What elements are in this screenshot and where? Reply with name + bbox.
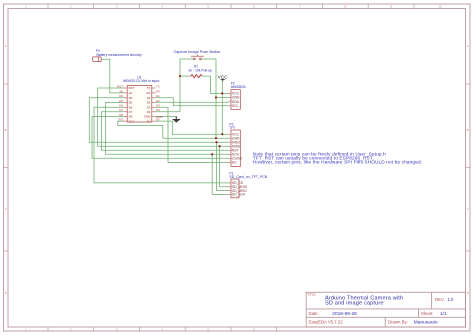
wire MOSI branch to SD_MOSI [220,146,229,187]
U1 outside net labels right [156,84,162,121]
junction GND column / P2.GND row [215,96,217,98]
svg-text:4: 4 [162,5,164,9]
connector P1 SD card [231,179,239,198]
svg-text:D: D [5,291,7,295]
wire D8 net to P3.CS/SS [92,117,229,159]
U1 right pins [152,88,156,121]
svg-text:SD_Card_on_TFT_PCB: SD_Card_on_TFT_PCB [229,175,267,179]
junction VCC vertical / P3.VCC row [221,133,223,135]
svg-text:C: C [5,207,7,211]
svg-text:1: 1 [25,5,27,9]
svg-text:GND: GND [144,115,150,119]
svg-text:D7: D7 [119,108,123,112]
push button SW [191,55,204,60]
resistor R1 [191,75,202,78]
svg-text:SD and image capture: SD and image capture [325,300,384,306]
svg-text:D8: D8 [129,115,133,119]
svg-text:3V3: 3V3 [118,118,124,122]
svg-text:2018-08-28: 2018-08-28 [332,311,357,317]
wire R1 left lead [180,75,191,77]
junction MOSI branch [219,145,221,147]
U1 pin names inside [129,86,135,123]
IC U1 WEMOS D1 Mini [127,86,152,123]
wire P2.GND row [216,97,229,99]
svg-text:1k - 10k Pull-up: 1k - 10k Pull-up [188,68,212,72]
svg-text:9: 9 [390,5,392,9]
svg-text:D2: D2 [147,101,151,105]
svg-text:5V: 5V [147,119,151,123]
junction GND column / P3.GND row [215,137,217,139]
wire D7 net to P3.RST row [101,112,228,151]
svg-text:Sheet:: Sheet: [421,311,433,316]
junction VCC stem / P2.VCC row [221,92,223,94]
svg-text:D0: D0 [119,94,123,98]
wire D5 net to P3.SCK [106,103,229,155]
junction SCK branch [211,153,213,155]
svg-text:A0: A0 [119,89,123,93]
svg-text:D0: D0 [129,96,133,100]
svg-text:However, certain pins, like th: However, certain pins, like the Hardware… [253,160,422,165]
wire U1.5V to P3.VCC row [156,121,229,134]
wire button top right down to GND column [201,59,216,138]
svg-text:C: C [467,207,469,211]
svg-text:EasyEDA V5.7.22: EasyEDA V5.7.22 [309,319,344,324]
svg-text:VCC: VCC [218,75,229,81]
svg-text:D5: D5 [119,99,123,103]
svg-text:5: 5 [207,5,209,9]
junction dots [179,75,223,155]
svg-text:D7: D7 [129,110,133,114]
svg-text:RST: RST [129,86,135,90]
svg-text:D2: D2 [156,99,160,103]
junction R1/button left [179,75,181,77]
svg-text:D1: D1 [156,94,160,98]
svg-text:7: 7 [299,5,301,9]
svg-text:6: 6 [253,5,255,9]
svg-text:2: 2 [70,5,72,9]
wire D0 net to P3.MISO row [89,98,228,142]
wire U1.GND to ground symbol [156,117,177,123]
connector P3 TFT [231,130,240,167]
svg-text:D: D [467,291,469,295]
wire VCC symbol stem down to P3.VCC row [221,81,223,135]
U1 outside net labels left [117,84,123,121]
svg-text:A: A [5,44,7,48]
svg-text:D5: D5 [129,101,133,105]
svg-text:TX: TX [156,84,160,88]
wire 3V3 wrap under U1 to GND row [118,121,163,138]
svg-text:Battery measurement circuitry: Battery measurement circuitry [97,53,142,57]
svg-text:D4: D4 [156,108,160,112]
svg-text:D3: D3 [156,104,160,108]
svg-text:A: A [467,44,469,48]
svg-text:10: 10 [439,5,442,9]
ground [173,117,181,123]
svg-text:SD_SCK: SD_SCK [232,193,246,197]
svg-text:D3: D3 [147,105,151,109]
svg-text:A0: A0 [129,91,133,95]
svg-text:3: 3 [116,5,118,9]
wire D6 net to P1.SD_CS row [94,107,229,183]
svg-text:TFT: TFT [229,126,235,130]
VCC power symbol [221,79,225,81]
svg-text:SCL: SCL [232,104,239,108]
svg-text:AMG8833: AMG8833 [231,85,246,89]
svg-text:8: 8 [345,5,347,9]
svg-text:Capture Image Push Button: Capture Image Push Button [174,50,221,54]
wire SCK branch to SD_SCK [212,154,229,194]
wire R1 right lead down to P2.VCC row [202,76,229,93]
wire MISO branch to SD_MISO [217,142,229,190]
svg-text:RX: RX [146,91,150,95]
wire U1.D3 to P3.DC [156,107,229,162]
svg-text:RST: RST [117,84,123,88]
note text [253,152,422,165]
svg-text:Manusauto: Manusauto [414,320,438,326]
U1 left pins [124,88,128,121]
svg-text:B: B [467,128,469,132]
svg-text:3V3: 3V3 [129,119,135,123]
svg-text:RX: RX [156,89,160,93]
svg-text:REV:: REV: [435,297,445,302]
svg-text:5V: 5V [156,118,160,122]
wire U1.D2 to P2.SDA [156,101,229,103]
svg-text:D6: D6 [129,105,133,109]
wire P4 to A0 [101,59,123,93]
svg-text:Date:: Date: [309,311,319,316]
svg-text:Drawn By:: Drawn By: [388,319,408,324]
wire P3.GND row [163,137,229,139]
svg-text:D6: D6 [119,104,123,108]
junction MISO branch [215,141,217,143]
svg-text:D8: D8 [119,113,123,117]
svg-text:1.0: 1.0 [448,297,454,302]
svg-text:B: B [5,128,7,132]
wire U1.D1 to P2.SCL [156,98,229,106]
connector P4 [93,57,102,62]
wire button top left [156,59,194,112]
svg-text:D1: D1 [147,96,151,100]
svg-text:1/1: 1/1 [440,311,447,317]
wire RST net: U1.RST left, down, to P3.MOSI row [98,88,229,146]
svg-text:TITLE:: TITLE: [307,293,316,297]
svg-text:D4: D4 [147,110,151,114]
svg-text:WEMOS D1 Mini or equiv.: WEMOS D1 Mini or equiv. [123,79,160,83]
svg-text:TX: TX [147,86,151,90]
svg-text:DC: DC [232,161,237,165]
connector P2 AMG8833 [231,90,240,110]
